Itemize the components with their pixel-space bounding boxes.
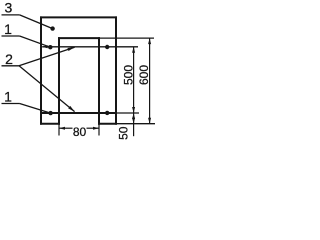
extension line of vessel top (600 datum) xyxy=(100,37,154,39)
50 top arrowhead xyxy=(132,113,135,119)
inner vessel wall right xyxy=(98,37,100,125)
extension of base bottom line xyxy=(116,123,155,125)
80 left arrowhead xyxy=(59,127,65,130)
label 2 lower leader arrowhead xyxy=(68,106,74,112)
svg-text:2: 2 xyxy=(5,51,13,67)
label 1 top leader dot xyxy=(48,45,52,49)
cavity bottom line xyxy=(40,112,117,114)
extension of cavity bottom line xyxy=(116,112,139,114)
label 2 upper leader wire xyxy=(19,47,75,66)
dot on cavity bottom right xyxy=(105,111,109,115)
label 2 lower leader wire xyxy=(19,66,75,112)
label 2 upper leader arrowhead xyxy=(67,47,74,51)
label 1 bottom leader dot xyxy=(48,111,52,115)
inner vessel wall left xyxy=(58,37,60,125)
label 3 underline xyxy=(2,14,20,16)
80 right arrowhead xyxy=(93,127,99,130)
500 bottom arrowhead xyxy=(132,107,135,113)
svg-text:80: 80 xyxy=(73,125,87,139)
dimension line 600 xyxy=(149,38,151,124)
600 top arrowhead xyxy=(148,38,151,44)
base bottom right segment xyxy=(98,123,117,125)
label 1 top leader wire xyxy=(20,36,51,47)
inner vessel top edge xyxy=(58,37,100,39)
label 3 leader wire xyxy=(20,15,53,29)
600 bottom arrowhead xyxy=(148,118,151,124)
dimension line 80 left segment xyxy=(59,127,73,129)
dot on fill level right xyxy=(105,45,109,49)
dimension line 500 and 50 (shared vertical) xyxy=(133,47,135,136)
500 top arrowhead xyxy=(132,47,135,53)
label 1 bottom underline xyxy=(2,103,20,105)
svg-text:1: 1 xyxy=(4,21,12,37)
extension line left leg for 80 xyxy=(58,124,60,136)
fill level left arrowhead xyxy=(42,45,48,48)
dimension line 80 right segment xyxy=(87,127,100,129)
svg-text:50: 50 xyxy=(117,126,131,140)
base bottom left segment xyxy=(40,123,60,125)
fill level line with left arrow (500 datum) xyxy=(42,46,138,48)
outer mold top edge xyxy=(40,16,117,18)
label 2 underline xyxy=(2,65,20,67)
label 3 leader dot xyxy=(50,26,54,30)
svg-text:1: 1 xyxy=(4,88,12,104)
label 1 top underline xyxy=(2,35,20,37)
outer mold wall left xyxy=(40,16,42,124)
svg-text:600: 600 xyxy=(137,65,151,85)
svg-text:500: 500 xyxy=(121,65,135,85)
label 1 bottom leader wire xyxy=(20,104,51,114)
extension line right leg for 80 xyxy=(98,124,100,136)
outer mold wall right xyxy=(115,16,117,124)
svg-text:3: 3 xyxy=(5,0,13,15)
50 bottom arrowhead xyxy=(132,118,135,124)
